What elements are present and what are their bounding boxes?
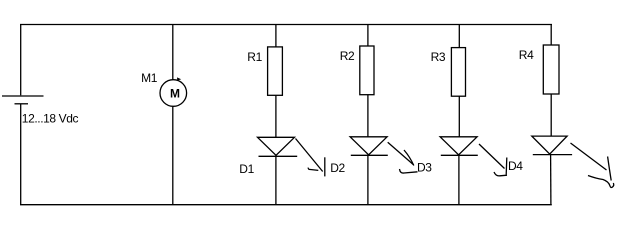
svg-text:D4: D4 [508,159,523,173]
svg-text:M1: M1 [141,71,158,85]
svg-text:M: M [170,87,180,101]
svg-text:R2: R2 [340,49,355,63]
svg-text:D2: D2 [330,161,345,175]
svg-text:12...18 Vdc: 12...18 Vdc [22,111,79,125]
svg-text:D3: D3 [417,160,432,174]
svg-text:R3: R3 [431,50,446,64]
svg-text:R1: R1 [247,50,262,64]
svg-text:R4: R4 [519,48,534,62]
svg-text:D1: D1 [239,162,254,176]
